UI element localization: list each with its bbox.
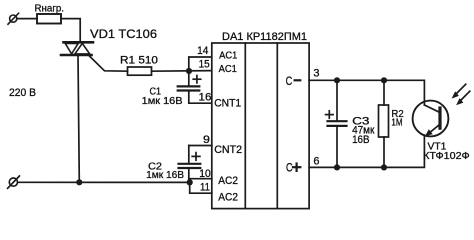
svg-text:DA1 КР1182ПМ1: DA1 КР1182ПМ1	[222, 31, 307, 43]
svg-text:CNT1: CNT1	[214, 98, 241, 110]
wire C2 down to bottom rail	[188, 168, 190, 182]
node junction R2 top	[381, 77, 387, 83]
wire junction to pin 10	[190, 179, 212, 183]
node junction C3 bottom	[334, 164, 340, 170]
wire R1 to pin 15	[152, 70, 212, 73]
capacitor C3	[326, 80, 347, 167]
wire gate of VD1 to R1	[89, 56, 128, 72]
node junction R2 bottom	[381, 164, 387, 170]
svg-text:CNT2: CNT2	[214, 144, 242, 156]
svg-text:R1 510: R1 510	[120, 54, 158, 66]
resistor R2	[379, 80, 389, 167]
node junction C3 top	[334, 77, 340, 83]
wire triac anode down to bottom rail	[78, 55, 79, 182]
wire Rнагр to corner and down to VD1	[61, 19, 80, 42]
svg-text:КТФ102Ф: КТФ102Ф	[423, 151, 470, 162]
svg-text:C: C	[286, 74, 293, 88]
svg-text:1мк 16В: 1мк 16В	[146, 169, 184, 181]
svg-text:AC1: AC1	[219, 50, 237, 61]
wire pin 3 rail to VT1 collector	[309, 80, 424, 105]
node junction pin15/C1	[186, 68, 192, 74]
svg-text:11: 11	[200, 182, 210, 194]
svg-text:16В: 16В	[352, 134, 369, 146]
wire bottom rail	[18, 181, 190, 183]
svg-text:14: 14	[197, 45, 208, 57]
svg-text:AC1: AC1	[219, 64, 237, 75]
IC DA1 body	[212, 43, 309, 209]
transistor VT1	[413, 101, 449, 137]
pin label C+	[286, 161, 300, 175]
capacitor C1	[178, 71, 201, 91]
svg-text:Rнагр.: Rнагр.	[35, 4, 65, 15]
light arrow 2 into VT1	[456, 91, 470, 105]
svg-text:C: C	[286, 161, 293, 175]
node junction bottom rail / C2 / pins 10-11	[187, 179, 193, 185]
svg-text:1мк 16В: 1мк 16В	[142, 95, 183, 107]
svg-text:15: 15	[199, 58, 210, 70]
wire terminal to Rнагр	[17, 18, 37, 20]
wire C1 to pin 16	[189, 91, 212, 104]
svg-text:AC2: AC2	[218, 175, 238, 187]
wire junction up to pin 14	[189, 57, 212, 71]
capacitor C2	[179, 146, 201, 169]
wire pin 6 rail to VT1 emitter	[309, 136, 424, 167]
svg-text:220 В: 220 В	[9, 87, 36, 99]
svg-text:6: 6	[313, 155, 319, 167]
svg-text:1М: 1М	[391, 118, 402, 129]
terminal X2 (220V bottom)	[8, 176, 20, 188]
svg-text:VD1 TC106: VD1 TC106	[90, 29, 157, 41]
wire junction to pin 11	[190, 182, 212, 193]
pin label C-	[286, 74, 301, 88]
svg-text:AC2: AC2	[218, 192, 238, 204]
resistor R1	[128, 67, 152, 75]
svg-text:16: 16	[199, 92, 212, 104]
svg-text:9: 9	[203, 134, 210, 146]
terminal X1 (220V top)	[8, 13, 19, 24]
pin 9 stub wire	[189, 145, 212, 147]
light arrow 1 into VT1	[452, 84, 466, 98]
node junction bottom rail / triac branch	[76, 179, 82, 185]
svg-text:3: 3	[313, 68, 319, 80]
triac VD1	[61, 42, 93, 55]
resistor Rнагр	[37, 14, 61, 24]
